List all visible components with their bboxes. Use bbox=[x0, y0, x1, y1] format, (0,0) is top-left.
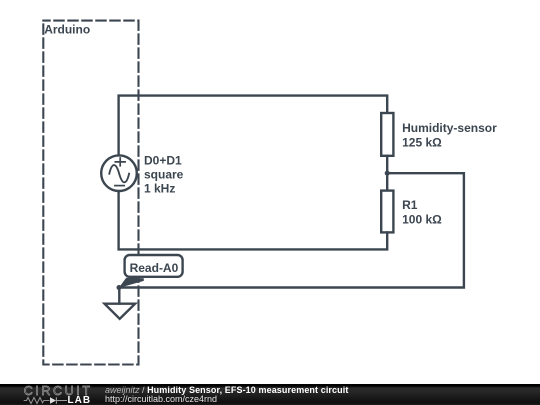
voltage source V1 minus sign bbox=[115, 185, 124, 187]
svg-text:D0+D1: D0+D1 bbox=[144, 154, 182, 168]
svg-text:Read-A0: Read-A0 bbox=[130, 261, 179, 275]
svg-text:125 kΩ: 125 kΩ bbox=[402, 135, 442, 149]
voltage source V1 sine symbol bbox=[109, 165, 129, 182]
svg-text:Humidity-sensor: Humidity-sensor bbox=[402, 121, 497, 135]
net flag Read-A0 box bbox=[125, 255, 183, 277]
svg-text:Arduino: Arduino bbox=[44, 22, 90, 36]
ground bbox=[105, 304, 136, 319]
footer bar bbox=[0, 384, 540, 405]
resistor Humidity-sensor (body) bbox=[381, 113, 393, 156]
net flag Read-A0 label bbox=[130, 261, 179, 275]
wire: humidity-sensor bottom to R1 top (through midpoint node) bbox=[386, 156, 388, 191]
voltage source V1 (circle) bbox=[101, 155, 137, 191]
label R1 100 kΩ bbox=[402, 198, 442, 227]
label D0+D1 square 1 kHz bbox=[144, 154, 184, 196]
wire: midpoint node right loop down to Read-A0 node bbox=[119, 173, 464, 287]
wire: R1 bottom to source bottom (bottom return) bbox=[119, 191, 388, 249]
svg-text:100 kΩ: 100 kΩ bbox=[402, 213, 442, 227]
net flag Read-A0 pointer bbox=[119, 278, 144, 288]
svg-text:square: square bbox=[144, 168, 184, 182]
node: midpoint junction dot bbox=[385, 171, 390, 176]
Arduino label bbox=[44, 22, 90, 36]
wire: source top to humidity-sensor top bbox=[119, 96, 388, 156]
label Humidity-sensor 125 kΩ bbox=[402, 121, 497, 150]
svg-text:1 kHz: 1 kHz bbox=[144, 182, 175, 196]
svg-text:LAB: LAB bbox=[68, 395, 92, 405]
resistor R1 (body) bbox=[381, 191, 393, 233]
voltage source V1 plus sign bbox=[115, 158, 125, 166]
footer byline bbox=[105, 386, 348, 404]
node: Read-A0 junction dot bbox=[117, 285, 122, 290]
Arduino enclosure (dashed box) bbox=[43, 21, 138, 365]
wire: Read-A0 node to ground bbox=[118, 288, 120, 304]
CircuitLab logo bbox=[23, 384, 95, 405]
svg-text:R1: R1 bbox=[402, 198, 418, 212]
